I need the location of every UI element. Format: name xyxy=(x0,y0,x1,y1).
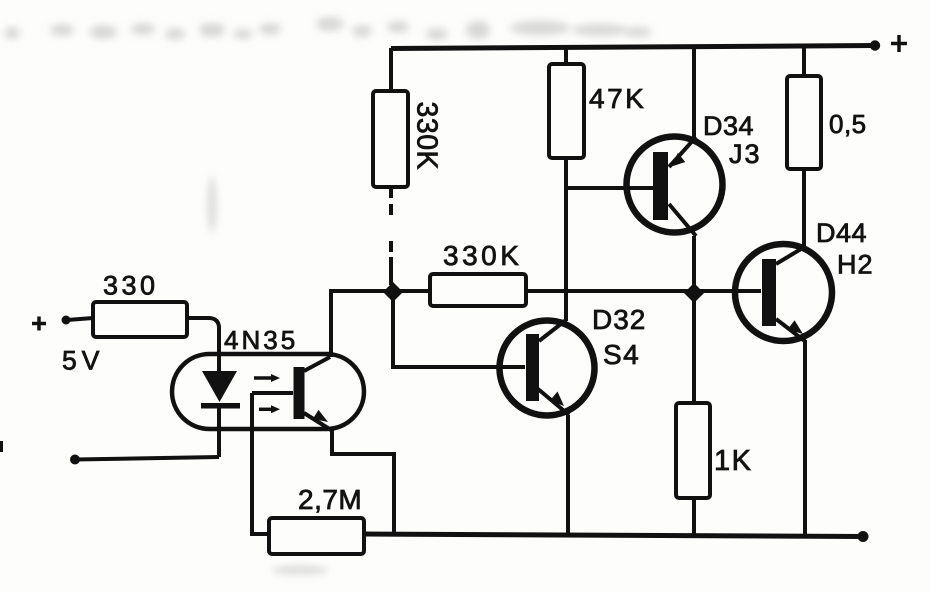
wire Q1 base xyxy=(566,186,653,190)
wire rail to R4 xyxy=(564,46,568,64)
node 5V plus label xyxy=(32,317,46,331)
wire opto collector diagonal xyxy=(304,291,331,371)
wire dash-dot R2 to node A xyxy=(389,187,393,285)
node left bottom terminal dot xyxy=(70,455,80,465)
resistor R5 1K xyxy=(676,403,710,498)
svg-text:2,7M: 2,7M xyxy=(298,484,362,515)
svg-text:4N35: 4N35 xyxy=(224,325,298,355)
svg-text:D34: D34 xyxy=(703,111,754,141)
resistor R2 330K vertical xyxy=(373,91,408,187)
scan artifact edge mark xyxy=(0,441,3,452)
wire Q3 emitter to bottom rail xyxy=(803,341,807,537)
svg-text:330K: 330K xyxy=(443,240,522,271)
wire R1 to LED anode xyxy=(187,318,219,371)
wire Q3 collector diagonal xyxy=(776,246,806,264)
wire Q2 collector diagonal xyxy=(539,320,566,341)
wire rail to R6 xyxy=(802,46,806,76)
transistor Q1 D34 circle xyxy=(627,137,723,233)
wire node A to optocoupler collector xyxy=(331,291,393,357)
wire node A to Q2 base xyxy=(393,291,525,367)
LED D1 cathode bar xyxy=(201,403,240,409)
wire LED cathode down xyxy=(217,408,221,457)
opto emitter arrow xyxy=(313,410,328,422)
transistor Q2 D32 circle xyxy=(500,321,595,416)
resistor R3 330K horizontal xyxy=(430,274,526,306)
node V+ terminal dot xyxy=(870,40,880,50)
node A junction xyxy=(383,282,403,302)
svg-text:0,5: 0,5 xyxy=(829,109,867,139)
opto light arrow 2 xyxy=(259,408,271,412)
wire bottom rail xyxy=(364,534,862,537)
svg-text:H2: H2 xyxy=(837,250,874,280)
svg-text:1K: 1K xyxy=(714,445,752,477)
wire node A to R3 xyxy=(393,289,430,293)
Q1 bar xyxy=(653,152,668,220)
scan artifact smudges top xyxy=(4,17,652,574)
node left top terminal dot xyxy=(62,316,71,325)
transistor Q3 D44 circle xyxy=(735,244,832,341)
resistor R1 330 xyxy=(93,302,187,337)
svg-text:47K: 47K xyxy=(589,83,646,114)
optocoupler U1 4N35 body xyxy=(172,354,364,429)
wire Q2 emitter to bottom rail xyxy=(566,415,570,536)
wire R5 to bottom rail xyxy=(692,498,696,537)
wire left terminal to R1 xyxy=(67,318,93,320)
wire opto base horizontal xyxy=(252,391,293,395)
resistor R6 0,5 xyxy=(787,76,821,169)
resistor R4 47K xyxy=(549,64,584,158)
Q2 emitter arrow xyxy=(550,392,564,407)
wire Q3 emitter diagonal xyxy=(776,319,806,342)
wire Q1 collector to node B to R5 xyxy=(692,236,696,403)
wire R6 to Q3 collector xyxy=(802,169,806,248)
svg-text:D44: D44 xyxy=(816,218,867,248)
node B junction xyxy=(684,283,704,303)
resistor R7 2,7M xyxy=(269,518,364,554)
wire rail to R2 top xyxy=(389,48,393,91)
wire Q2 emitter diagonal xyxy=(538,389,569,415)
wire Q1 emitter diagonal xyxy=(669,137,696,167)
wire R3 to node B and Q3 base xyxy=(526,289,761,293)
wire opto base to R7 left xyxy=(252,393,269,534)
wire LED cathode to left terminal xyxy=(75,457,219,460)
wire rail to Q1 emitter xyxy=(692,46,696,139)
svg-text:D32: D32 xyxy=(592,304,646,335)
wire opto emitter to bottom rail xyxy=(332,429,394,534)
wire opto emitter diagonal xyxy=(304,413,331,430)
wire top rail V+ xyxy=(391,46,876,49)
opto phototransistor bar xyxy=(294,367,305,419)
opto light arrow 1 xyxy=(254,376,271,380)
wire Q1 collector diagonal xyxy=(669,204,696,236)
Q3 emitter arrow xyxy=(788,320,803,334)
Q2 bar xyxy=(526,334,539,401)
svg-text:330K: 330K xyxy=(411,102,443,171)
node bottom rail terminal dot xyxy=(858,531,869,542)
svg-text:5V: 5V xyxy=(62,346,104,376)
Q1 emitter arrow xyxy=(670,153,685,167)
Q3 bar xyxy=(762,259,776,326)
svg-text:S4: S4 xyxy=(603,339,640,370)
LED D1 triangle xyxy=(202,371,237,402)
node V+ plus label xyxy=(891,35,907,52)
wire R4 down past Q1 base to Q2 collector xyxy=(564,158,568,321)
svg-text:330: 330 xyxy=(103,271,159,301)
svg-text:J3: J3 xyxy=(729,139,762,169)
